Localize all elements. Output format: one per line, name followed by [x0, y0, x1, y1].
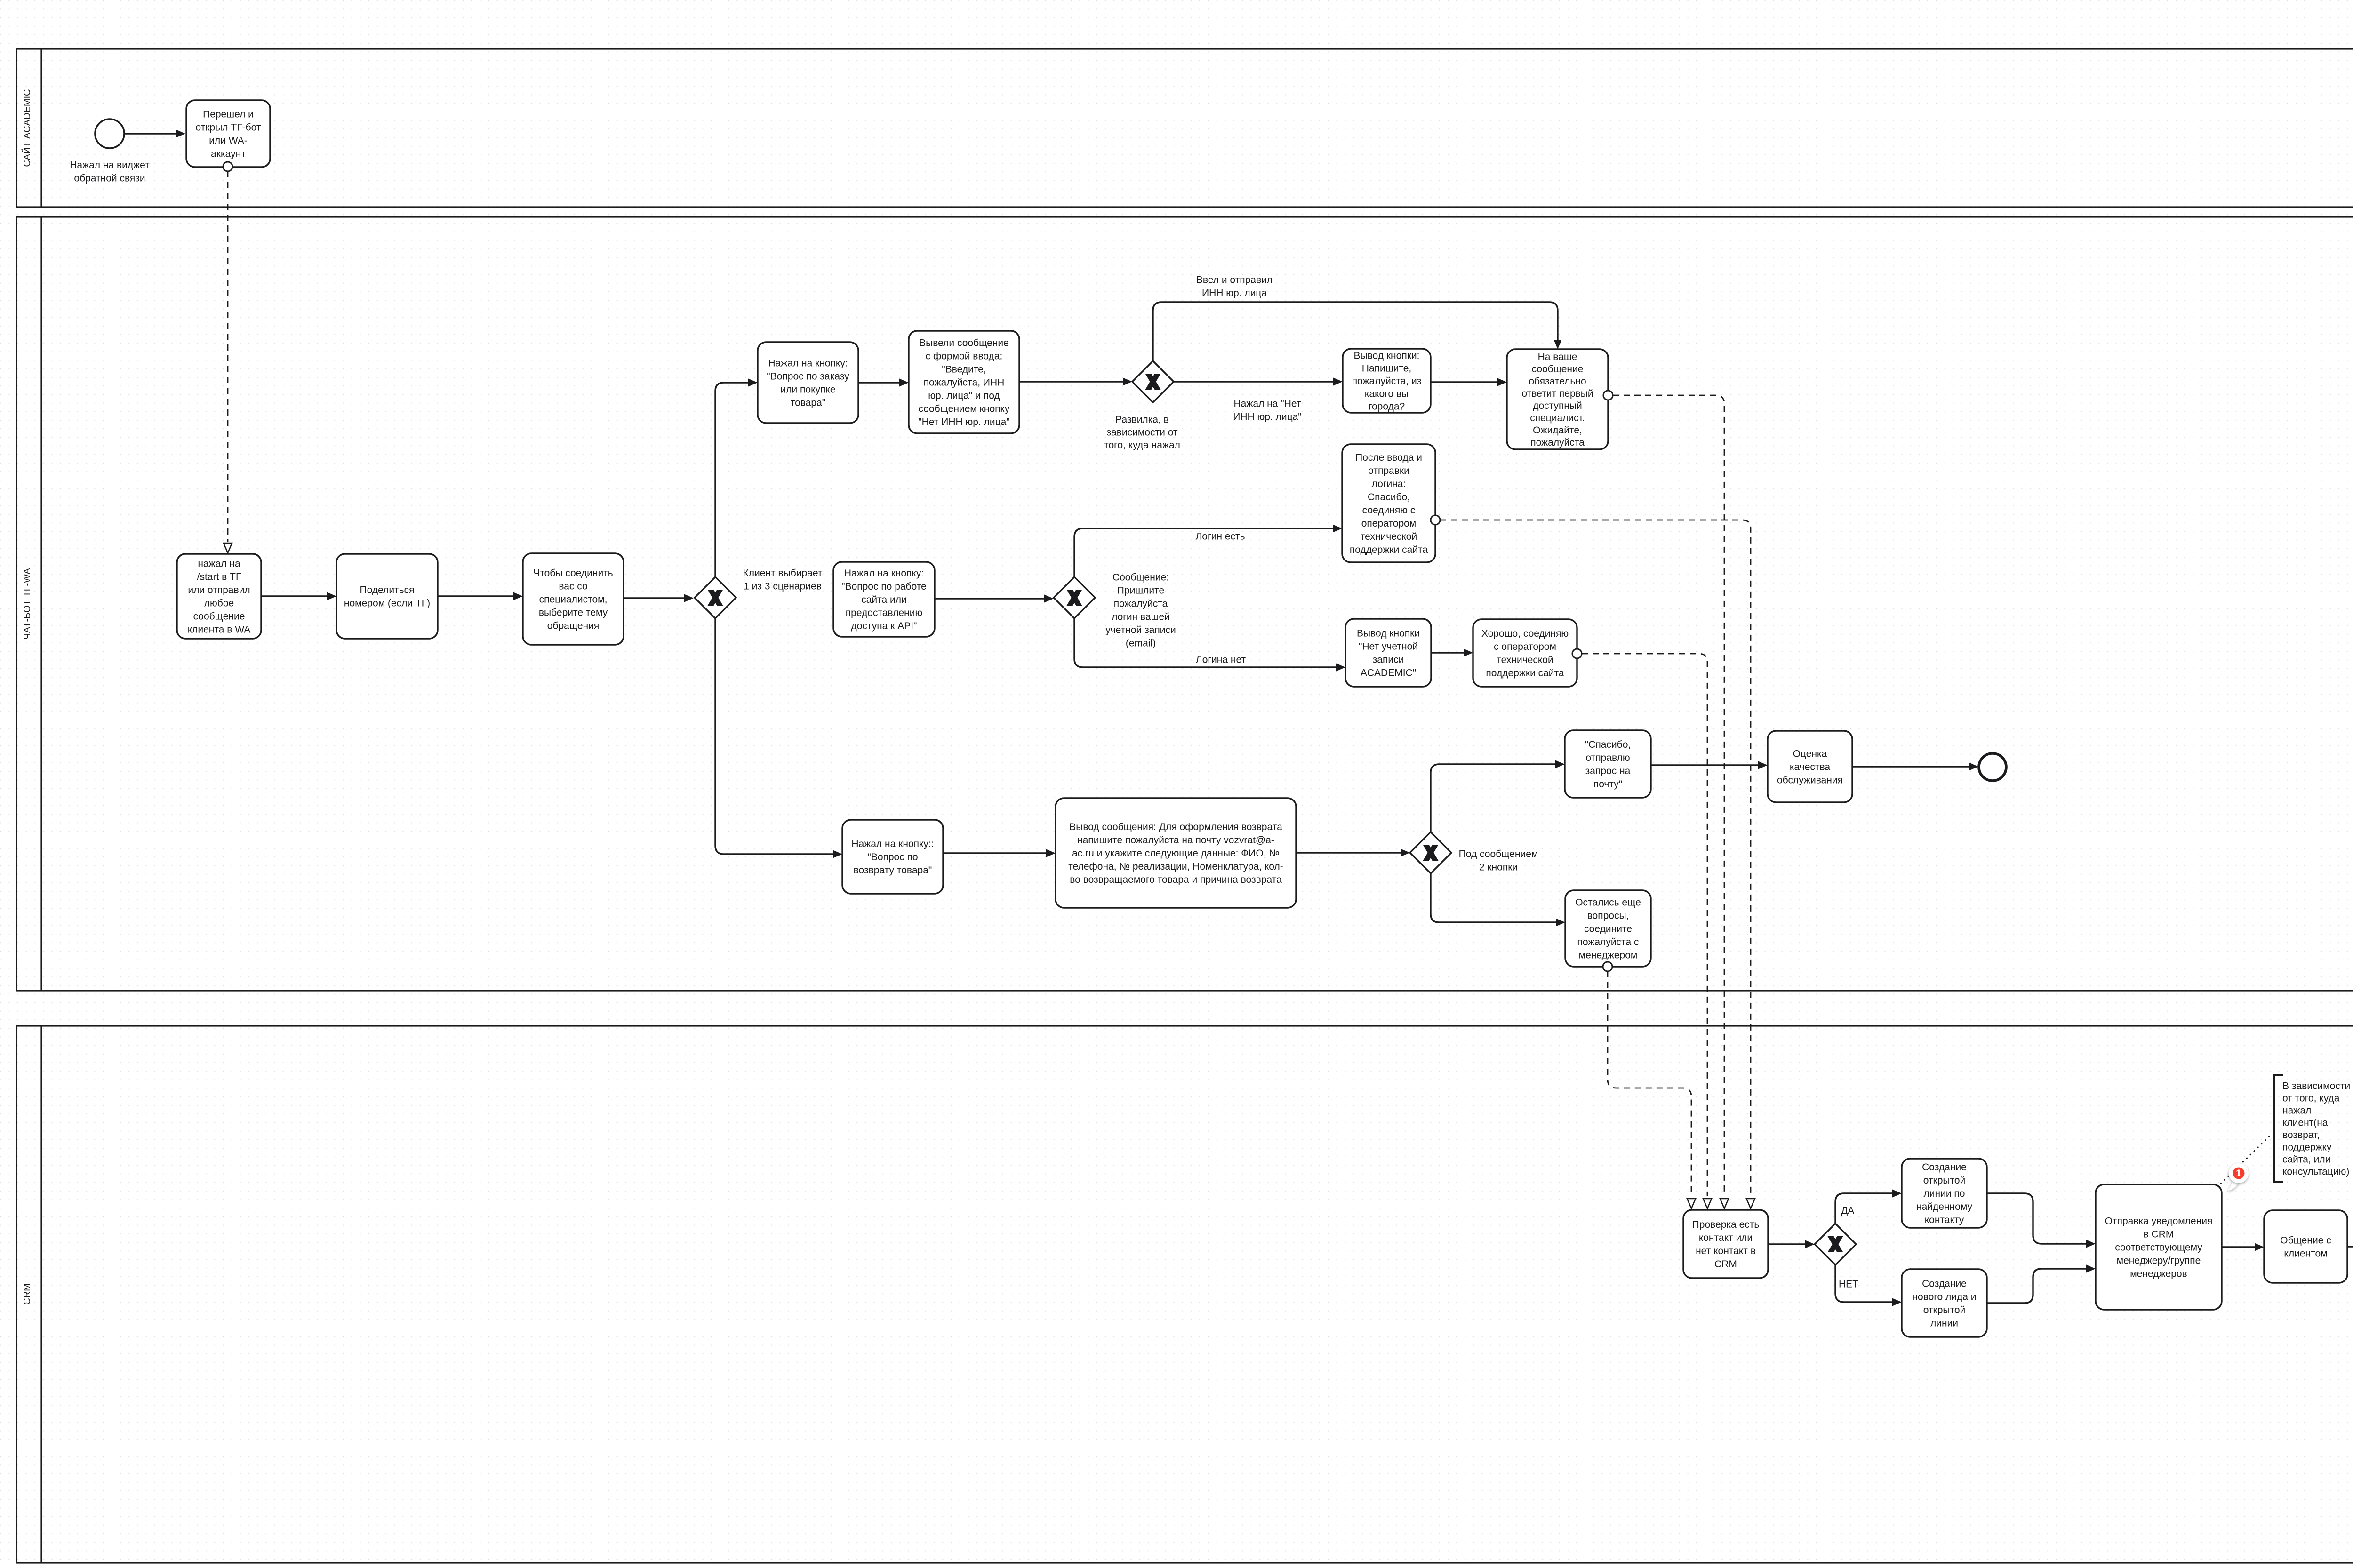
annotation bracket — [2274, 1075, 2283, 1182]
svg-text:ЧАТ-БОТ ТГ-WA: ЧАТ-БОТ ТГ-WA — [22, 568, 32, 640]
gateway: G4 две кнопки — [1410, 832, 1451, 873]
message flow: s2 to crm — [1608, 971, 1696, 1208]
svg-text:НЕТ: НЕТ — [1839, 1279, 1858, 1289]
task: Создание открытой линии по найденному контакту — [1902, 1159, 1987, 1228]
sequence flow: c2-d1 — [1987, 1265, 2096, 1304]
svg-text:CRM: CRM — [22, 1283, 32, 1305]
connection point — [1603, 391, 1613, 400]
sequence flow: t8-t9 — [943, 849, 1056, 857]
task: Вывод кнопки Нет учетной записи ACADEMIC — [1345, 619, 1431, 687]
svg-text:Логина нет: Логина нет — [1196, 654, 1246, 665]
task: Хорошо соединяю с оператором — [1473, 619, 1577, 687]
gateway: G2 развилка ИНН — [1132, 361, 1174, 402]
sequence flow: t2-g2 — [1019, 378, 1132, 386]
task: Оценка качества обслуживания (чат-бот) — [1768, 731, 1852, 802]
sequence flow: o2-end — [1852, 763, 1978, 771]
task: Чтобы соединить вас со специалистом — [523, 553, 624, 645]
sequence flow: b4-g1 — [624, 594, 694, 602]
task: Создание нового лида и открытой линии — [1902, 1269, 1987, 1337]
sequence flow: c0-g5 — [1768, 1240, 1815, 1248]
pool lane: CRM — [16, 1026, 2353, 1563]
message flow: t5 to crm — [1440, 520, 1755, 1208]
task: Проверка есть контакт или нет контакт в CRM — [1683, 1210, 1768, 1278]
svg-text:Вывели сообщениес формой ввода: Вывели сообщениес формой ввода:"Введите,… — [918, 337, 1010, 427]
sequence flow: d1-d2 — [2222, 1243, 2264, 1251]
svg-text:ДА: ДА — [1841, 1205, 1854, 1216]
sequence flow: t9-g4 — [1296, 849, 1410, 857]
task: Вывели сообщение с формой ввода — [909, 331, 1019, 433]
sequence flow: start to task — [125, 130, 185, 138]
sequence flow: s1-o2 — [1651, 761, 1768, 769]
end event (чат-бот) — [1979, 753, 2006, 781]
task: Отправка уведомления в CRM — [2096, 1184, 2222, 1310]
sequence flow: t6-t7 — [1431, 649, 1473, 657]
task: Нажал на кнопку Вопрос по заказу — [758, 342, 858, 423]
sequence flow: d2-d3 — [2347, 1243, 2353, 1251]
pool lane: САЙТ ACADEMIC — [16, 49, 2353, 207]
sequence flow: g5 да — [1835, 1190, 1902, 1224]
task: Вывод сообщения Для оформления возврата — [1056, 798, 1296, 908]
sequence flow: t1-t2 — [858, 379, 909, 387]
svg-text:САЙТ ACADEMIC: САЙТ ACADEMIC — [21, 89, 32, 167]
connection point — [223, 162, 232, 171]
task: После ввода и отправки логина — [1342, 444, 1435, 562]
task: Перешел и открыл ТГ-бот или WA-аккаунт — [186, 100, 270, 167]
svg-text:Логин есть: Логин есть — [1195, 531, 1245, 542]
sequence flow: g4 up — [1431, 760, 1565, 832]
task: Спасибо отправлю запрос на почту — [1565, 730, 1651, 798]
task: Нажал на кнопку Вопрос по работе сайта — [833, 562, 935, 637]
sequence flow: b2-b3 — [261, 592, 336, 600]
task: Нажал на кнопку Вопрос по возврату товара — [842, 820, 943, 894]
gateway: G3 логин — [1054, 577, 1095, 618]
task: Общение с клиентом — [2264, 1210, 2347, 1283]
sequence flow: g1 down — [715, 618, 842, 858]
sequence flow: g2-t3 — [1174, 378, 1343, 386]
message flow: t4 to crm — [1613, 395, 1729, 1208]
connection point — [1431, 515, 1440, 525]
gateway: G1 выбор сценария — [695, 577, 736, 618]
task: Остались еще вопросы — [1565, 890, 1651, 967]
svg-text:1: 1 — [2236, 1168, 2241, 1179]
connection point — [1603, 962, 1612, 971]
sequence flow: b3-b4 — [438, 592, 523, 600]
sequence flow: c1-d1 — [1987, 1193, 2096, 1248]
annotation dotted connector — [2221, 1134, 2272, 1184]
message flow: к чат-боту — [224, 171, 232, 553]
sequence flow: логина нет — [1074, 618, 1345, 672]
sequence flow: b5-g3 — [935, 595, 1054, 603]
svg-text:Вывод сообщения: Для оформлени: Вывод сообщения: Для оформления возврата… — [1068, 822, 1283, 885]
task: Поделиться номером (если ТГ) — [336, 554, 438, 639]
sequence flow: t3-t4 — [1431, 378, 1507, 386]
task: На ваше сообщение обязательно ответит — [1507, 349, 1608, 449]
sequence flow: логин есть — [1074, 525, 1342, 577]
task: нажал на /start в ТГ — [177, 554, 261, 639]
connection point — [1572, 649, 1582, 658]
comment badge 1 — [2227, 1163, 2249, 1191]
sequence flow: g1 up — [715, 379, 758, 577]
message flow: t7 to crm — [1582, 654, 1712, 1208]
sequence flow: ввел ИНН — [1153, 302, 1562, 361]
pool lane: ЧАТ-БОТ ТГ-WA — [16, 217, 2353, 991]
start event — [95, 119, 124, 148]
gateway: G5 контакт найден — [1815, 1224, 1856, 1265]
svg-text:Остались ещевопросы,соединитеп: Остались ещевопросы,соединитепожалуйста … — [1575, 897, 1641, 960]
sequence flow: g5 нет — [1835, 1265, 1902, 1306]
task: Вывод кнопки Напишите из какого вы города — [1343, 349, 1431, 413]
svg-text:Развилка, взависимости оттого,: Развилка, взависимости оттого, куда нажа… — [1104, 414, 1180, 450]
sequence flow: g4 down — [1431, 873, 1565, 927]
